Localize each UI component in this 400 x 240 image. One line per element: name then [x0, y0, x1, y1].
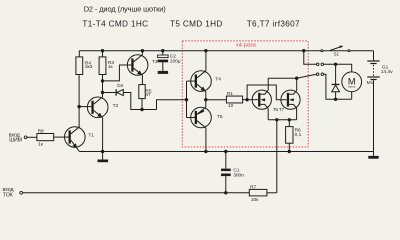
wire T4 base: [187, 80, 196, 82]
svg-text:0,1: 0,1: [295, 132, 302, 138]
wire drive to T4 T5 bases: [157, 100, 187, 110]
wire T4 collector to rail: [205, 51, 207, 71]
wire drain rail: [268, 77, 297, 79]
wire T3 collector to rail: [141, 51, 143, 55]
svg-text:R1: R1: [227, 91, 233, 97]
wire motor bottom: [336, 98, 352, 100]
wire terminal to R8: [27, 136, 37, 138]
svg-text:D2 - диод (лучше шотки): D2 - диод (лучше шотки): [84, 5, 166, 14]
wire C2 top: [162, 51, 164, 55]
wire R4 bottom to T1 collector: [78, 75, 80, 128]
motor M1: [342, 72, 362, 92]
transistor T5: [191, 107, 212, 128]
svg-text:S1: S1: [334, 52, 340, 57]
wire R6 bottom: [288, 143, 290, 151]
wire R3 bottom to T2 collector: [102, 75, 104, 97]
wire T6 drain: [267, 78, 269, 90]
wire T5 base: [187, 117, 196, 119]
node drain-T7: [295, 77, 298, 80]
resistor R1: [226, 96, 242, 103]
wire C1 top: [225, 152, 227, 169]
wire to T3 base riser: [103, 65, 132, 81]
wire gate jog to T7: [247, 85, 286, 100]
node base riser: [185, 98, 188, 101]
wire rail to connector row1: [304, 51, 317, 65]
node ground-T2: [101, 150, 104, 153]
wire ground rail: [79, 151, 373, 153]
svg-text:C1: C1: [233, 167, 239, 173]
svg-text:T6,T7 irf3607: T6,T7 irf3607: [247, 19, 300, 28]
wire battery minus down: [373, 80, 375, 156]
resistor R3: [99, 57, 106, 75]
node D2 branch: [101, 91, 104, 94]
wire C2 to ground: [162, 62, 164, 71]
svg-text:ТОК: ТОК: [3, 192, 13, 198]
wire R6 top: [288, 120, 290, 127]
wire R3 top: [102, 51, 104, 57]
svg-text:M1: M1: [367, 80, 374, 86]
svg-text:D2: D2: [117, 83, 123, 89]
transistor T1: [65, 127, 86, 152]
wire source bar: [268, 119, 296, 121]
svg-text:47: 47: [145, 92, 151, 98]
transistor T2: [87, 97, 108, 118]
transistor T4: [191, 71, 212, 92]
svg-text:х4 раза: х4 раза: [236, 43, 256, 49]
wire T6 gate: [252, 99, 258, 101]
transistor T3: [127, 55, 148, 76]
MOSFET T7: [281, 90, 300, 109]
svg-text:300n: 300n: [233, 173, 244, 179]
wire top rail: [79, 50, 373, 52]
diode D2: [116, 89, 124, 95]
svg-text:Т6 Т7: Т6 Т7: [273, 107, 285, 112]
terminal pair motor row1: [316, 63, 319, 66]
diode freewheel: [332, 64, 340, 99]
svg-text:R8: R8: [38, 128, 44, 134]
wire source sense riser: [276, 120, 278, 193]
resistor R4: [76, 57, 83, 75]
wire T2 emitter down to ground: [102, 118, 104, 152]
terminal ШИМ: [24, 136, 27, 139]
ground symbol battery: [368, 156, 378, 159]
node gate split: [245, 98, 248, 101]
wire row2 to motor bottom: [324, 74, 336, 99]
wire T2 base: [79, 106, 91, 108]
svg-text:100μ: 100μ: [170, 59, 181, 65]
node source-R7 riser: [275, 118, 278, 121]
node C1-ТОК wire: [224, 191, 227, 194]
svg-text:Т5: Т5: [217, 114, 223, 120]
node ground-T5: [204, 150, 207, 153]
dashed box x4 раза: [182, 41, 308, 147]
wire T4 emitter to output node: [205, 92, 207, 100]
node rail-R3: [101, 49, 104, 52]
wire T3 emitter to R5: [141, 75, 143, 85]
wire to D2: [103, 92, 116, 94]
svg-text:R7: R7: [250, 184, 256, 190]
resistor R6: [286, 127, 293, 144]
wire R4 top: [78, 51, 80, 57]
wire T7 source: [296, 109, 298, 120]
node T2 base junction: [77, 105, 80, 108]
wire T5 emitter to ground rail: [205, 128, 207, 152]
node rail-C2: [161, 49, 164, 52]
node T3 base branch: [101, 79, 104, 82]
node source-R6: [288, 118, 291, 121]
node R5 bottom: [140, 108, 143, 111]
capacitor C2: [158, 55, 169, 62]
wire row1 to motor top: [324, 64, 352, 72]
battery G1: [367, 60, 379, 80]
wire output to R1: [206, 99, 227, 101]
resistor R8: [37, 134, 54, 141]
svg-text:10: 10: [228, 103, 234, 109]
capacitor C1: [221, 169, 231, 177]
wire R7 to sense riser: [267, 192, 277, 194]
resistor R5: [139, 85, 145, 99]
node driver output: [204, 98, 207, 101]
svg-text:мотор: мотор: [348, 86, 356, 89]
svg-text:T1: T1: [88, 132, 94, 138]
svg-text:14,4v: 14,4v: [381, 69, 393, 75]
wire R1 to gate node: [243, 99, 253, 101]
wire T7 drain: [296, 78, 298, 90]
node rail-T3: [141, 49, 144, 52]
svg-text:3к3: 3к3: [85, 64, 93, 70]
svg-text:T2: T2: [113, 103, 119, 109]
terminal ТОК: [20, 191, 23, 194]
wire R5 bottom: [141, 99, 143, 110]
svg-text:10к: 10к: [251, 197, 259, 203]
node diode top: [334, 63, 337, 66]
wire ТОК: [23, 192, 250, 194]
wire R8 to T1 base: [54, 136, 69, 138]
wire T5 collector from output node: [205, 100, 207, 107]
wire T6 source: [267, 109, 269, 120]
node diode bottom: [334, 98, 337, 101]
wire drain to connector: [297, 74, 317, 78]
svg-text:T1-T4 CMD 1HC: T1-T4 CMD 1HC: [82, 19, 148, 28]
node rail-C1: [224, 150, 227, 153]
svg-text:T4: T4: [215, 76, 221, 82]
ground symbol left: [98, 152, 109, 163]
svg-text:Т3: Т3: [152, 59, 158, 65]
node rail-T4: [204, 49, 207, 52]
wire base riser T4-T5: [186, 81, 188, 117]
svg-text:ШИМ: ШИМ: [9, 138, 22, 144]
ground under C2: [158, 71, 168, 74]
wire D2 to R5 bottom node: [123, 93, 156, 110]
resistor R7: [249, 189, 267, 196]
terminal pair motor row2: [316, 73, 319, 76]
svg-text:T5 CMD 1HD: T5 CMD 1HD: [170, 19, 223, 28]
node ground-R6: [288, 150, 291, 153]
node rail-switch branch: [302, 49, 305, 52]
wire C1 bottom: [225, 176, 227, 193]
wire rail to battery: [373, 51, 375, 61]
MOSFET T6: [252, 90, 271, 109]
switch S1: [321, 46, 350, 52]
